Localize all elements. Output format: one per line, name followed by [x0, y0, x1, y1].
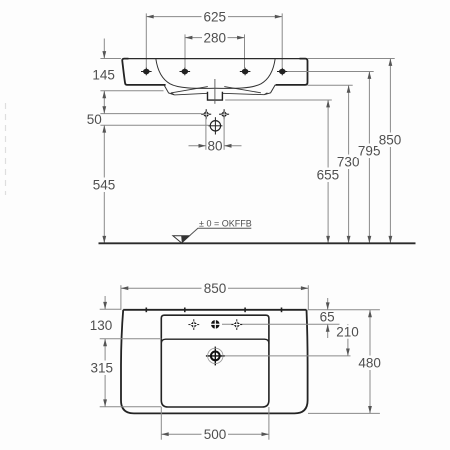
tap hole diamond P1 — [188, 319, 199, 330]
deck and bowl sides — [161, 315, 269, 343]
svg-text:850: 850 — [204, 281, 227, 296]
back edge tick T2 — [184, 308, 186, 313]
mounting hole H4 — [277, 68, 288, 76]
fixing hole diamond F2 (front view) — [219, 109, 229, 119]
svg-text:730: 730 — [337, 155, 360, 170]
svg-text:655: 655 — [317, 168, 340, 183]
svg-text:± 0 = OKFFB: ± 0 = OKFFB — [199, 219, 252, 229]
mounting hole H2 — [180, 68, 191, 76]
under-bowl trap profile right wedge — [264, 85, 275, 95]
left extension lines — [100, 59, 208, 126]
floor line — [99, 242, 416, 244]
dimension 280 line — [185, 34, 245, 68]
svg-text:145: 145 — [92, 67, 115, 82]
svg-text:315: 315 — [91, 361, 114, 376]
plan outer outline — [121, 310, 308, 414]
bowl top edge — [161, 339, 269, 343]
taps extension line — [222, 323, 340, 325]
svg-text:480: 480 — [358, 356, 381, 371]
centerline of drain — [214, 79, 216, 104]
right extension lines — [225, 59, 395, 101]
bowl outline — [161, 343, 269, 407]
left extension lines (plan) — [100, 309, 162, 407]
svg-text:50: 50 — [87, 112, 102, 127]
basin outline (front view) — [124, 58, 306, 60]
dimension 625 line — [146, 13, 282, 68]
right extension lines (plan) — [308, 310, 380, 414]
svg-text:65: 65 — [320, 310, 335, 325]
dimension 850 (height) — [389, 59, 391, 244]
fixing hole diamond F1 (front view) — [201, 109, 211, 119]
dimension 795 — [368, 72, 370, 244]
svg-text:280: 280 — [204, 30, 227, 45]
svg-text:210: 210 — [336, 325, 359, 340]
drain extension line — [223, 355, 351, 357]
back edge tick T1 — [145, 308, 147, 313]
dimension 80 — [189, 117, 242, 150]
drain spigot (front view) — [208, 92, 223, 100]
svg-text:130: 130 — [90, 318, 113, 333]
dimension 210 — [347, 324, 349, 356]
bowl arc (front view) — [156, 59, 275, 89]
dimension 315 — [104, 339, 106, 407]
back edge tick T4 — [281, 308, 283, 313]
mounting hole H3 — [240, 68, 251, 76]
svg-text:850: 850 — [379, 133, 402, 148]
tap hole circle P2 — [211, 320, 220, 329]
dimension 480 — [369, 310, 371, 414]
dimension 655 — [327, 100, 329, 243]
tap hole diamond P3 — [231, 319, 242, 330]
under-bowl trap profile left wedge — [164, 85, 174, 95]
datum leader line — [190, 228, 252, 236]
back edge tick T3 — [244, 308, 246, 313]
dimension 50 arrows — [103, 91, 105, 114]
drain symbol (plan) — [206, 347, 225, 366]
faint cropped centerline at left edge — [5, 103, 7, 195]
svg-text:80: 80 — [207, 139, 222, 154]
svg-text:500: 500 — [204, 427, 227, 442]
svg-text:545: 545 — [93, 178, 116, 193]
waste outlet circle (front view) — [208, 117, 222, 134]
dimension 130 — [104, 296, 106, 309]
dimension 545 — [103, 125, 105, 243]
datum triangle — [173, 236, 190, 243]
dimension 65 — [327, 298, 329, 310]
svg-text:795: 795 — [358, 144, 381, 159]
dimension 500 — [161, 407, 269, 440]
svg-text:625: 625 — [204, 9, 227, 24]
dimension 145 — [103, 39, 105, 59]
dimension 730 — [348, 85, 350, 243]
dimension 850 (width) — [121, 285, 308, 310]
mounting hole H1 — [141, 68, 152, 76]
